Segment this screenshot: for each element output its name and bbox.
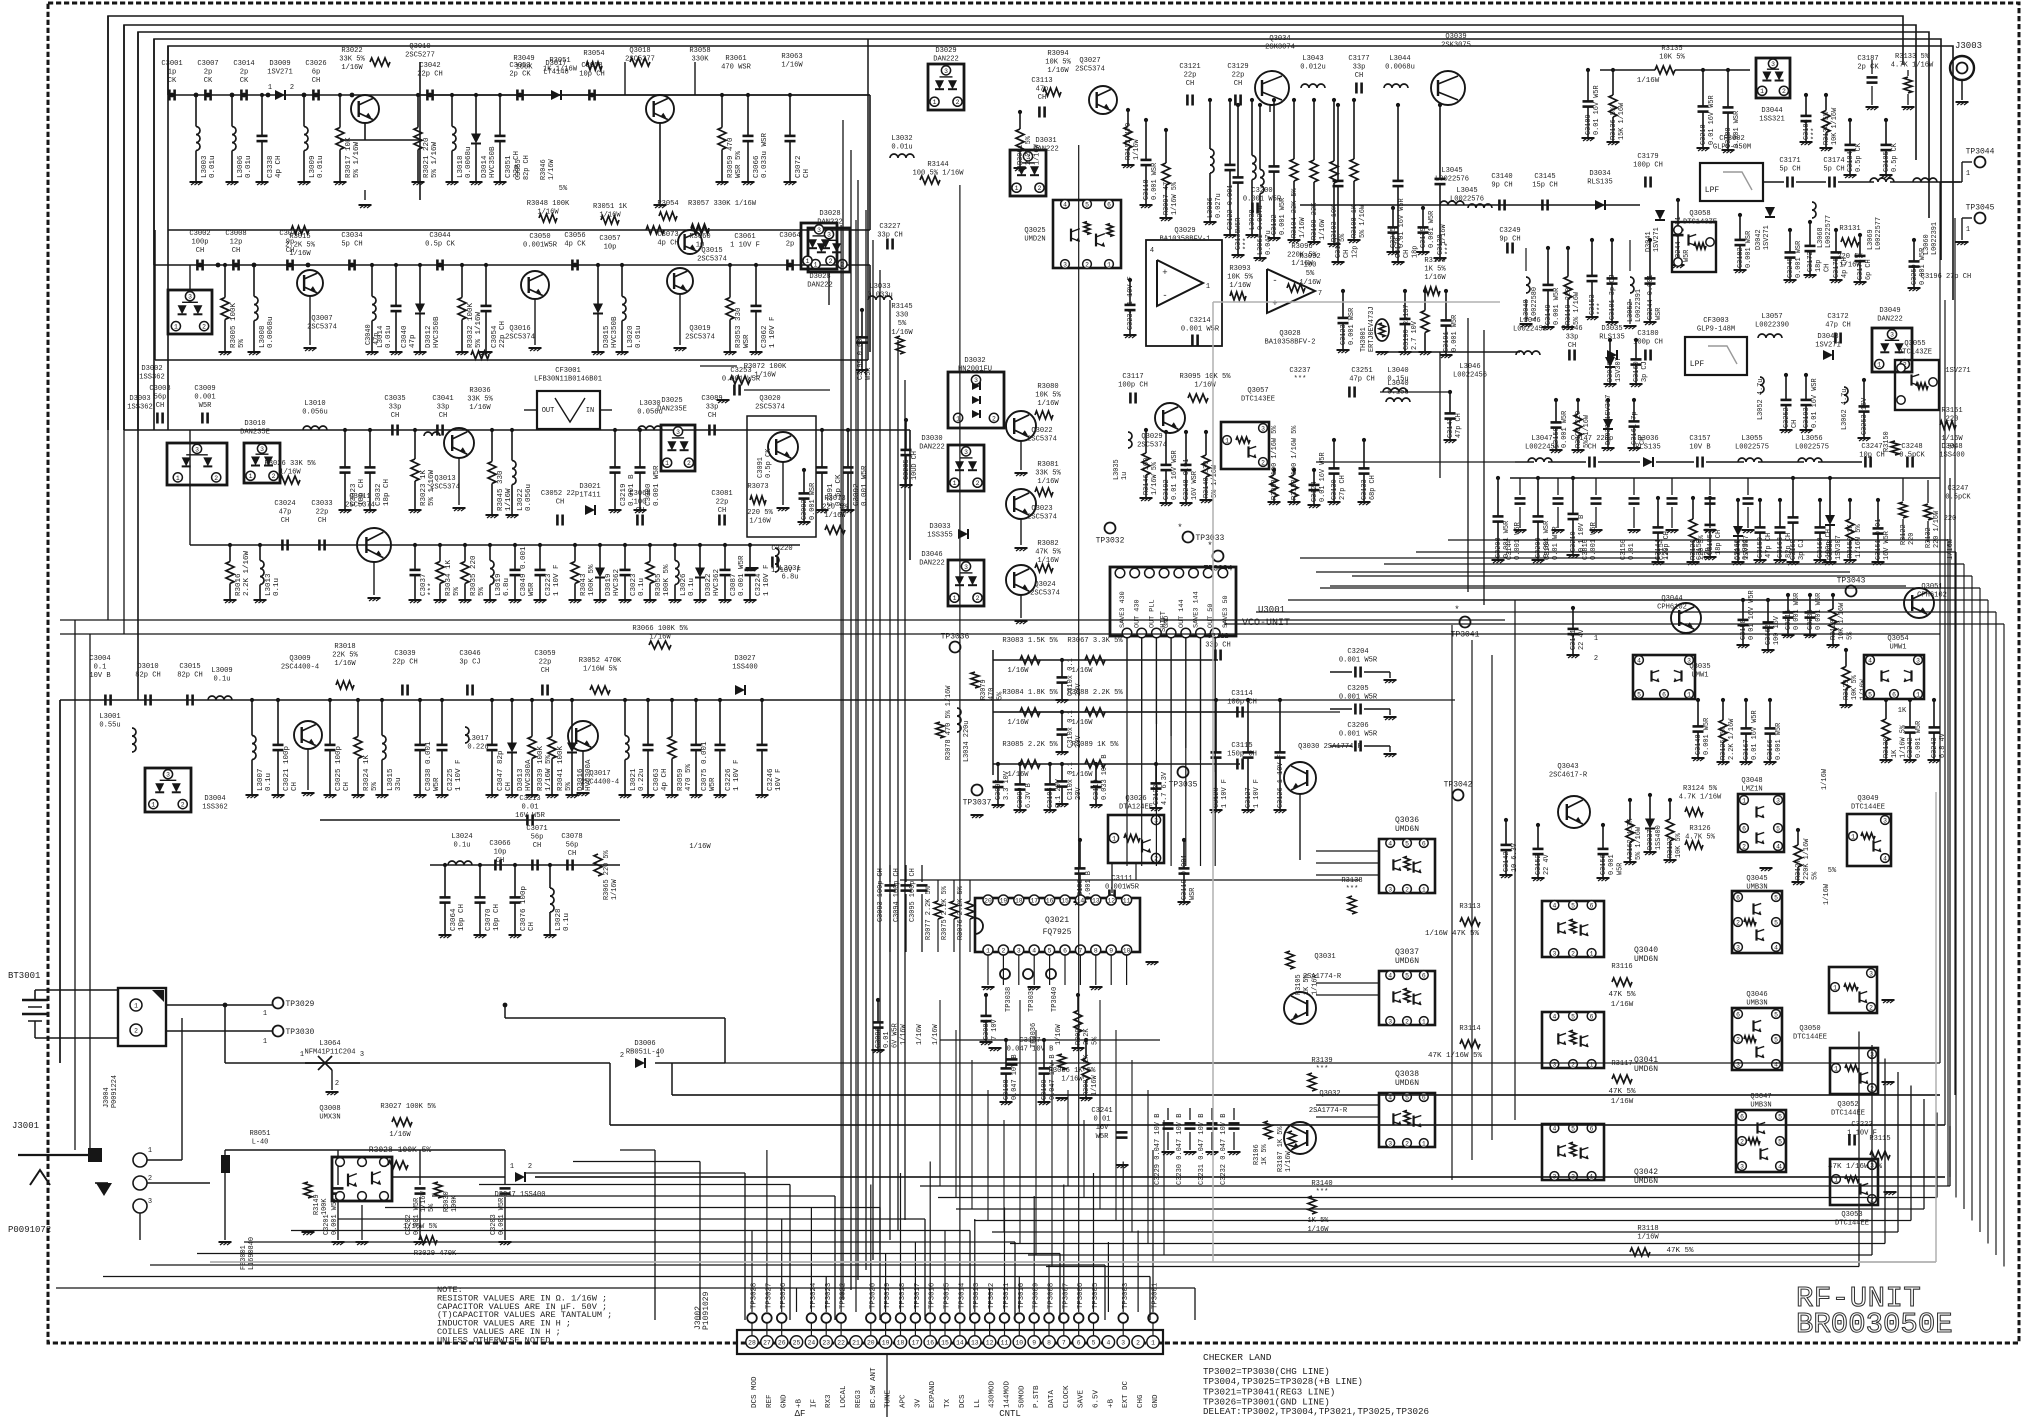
svg-text:C3193: C3193: [1803, 407, 1811, 428]
svg-text:W5R: W5R: [433, 777, 441, 791]
svg-text:Q3017: Q3017: [589, 770, 610, 778]
svg-text:3: 3: [1388, 1018, 1392, 1025]
svg-text:0.001 WSR: 0.001 WSR: [1348, 308, 1356, 345]
svg-text:0.22u: 0.22u: [467, 744, 488, 752]
svg-text:21: 21: [852, 1339, 860, 1346]
svg-text:BA10358BFV-1: BA10358BFV-1: [1159, 236, 1210, 244]
svg-text:R3104 22K 5%: R3104 22K 5%: [1291, 188, 1299, 238]
svg-text:CPH6102: CPH6102: [1657, 604, 1687, 612]
svg-text:C3251: C3251: [1351, 367, 1372, 375]
svg-text:1 10V F: 1 10V F: [733, 759, 741, 791]
svg-text:R3100: R3100: [1424, 257, 1445, 265]
svg-text:1: 1: [1225, 437, 1229, 444]
svg-text:2: 2: [687, 460, 691, 467]
svg-text:1K: 1K: [1898, 707, 1907, 715]
svg-text:4: 4: [1106, 1339, 1110, 1346]
svg-text:C3107: C3107: [1019, 1037, 1040, 1045]
svg-text:L3040: L3040: [1387, 380, 1408, 388]
svg-text:C3073: C3073: [657, 231, 678, 239]
svg-text:3p CJ: 3p CJ: [459, 659, 480, 667]
svg-text:10K 5%: 10K 5%: [1659, 54, 1685, 62]
svg-text:C3092: C3092: [853, 483, 861, 506]
svg-text:C3246: C3246: [767, 768, 775, 791]
svg-text:UMD6N: UMD6N: [1395, 1079, 1419, 1088]
svg-text:2.7 10V: 2.7 10V: [1411, 320, 1419, 350]
svg-text:1: 1: [151, 802, 155, 809]
svg-text:L3046: L3046: [1459, 363, 1480, 371]
svg-text:C3133: C3133: [1361, 479, 1369, 500]
svg-text:8: 8: [1047, 1339, 1051, 1346]
svg-text:0.001 W5R: 0.001 W5R: [1561, 411, 1569, 448]
svg-text:DCS MOD: DCS MOD: [751, 1376, 759, 1408]
svg-text:100K: 100K: [515, 64, 533, 72]
svg-text:REF: REF: [766, 1394, 774, 1408]
svg-text:C3041: C3041: [432, 395, 453, 403]
svg-text:C3157: C3157: [1689, 435, 1710, 443]
svg-text:1/16W: 1/16W: [1007, 667, 1029, 675]
svg-text:3: 3: [1388, 1140, 1392, 1147]
svg-text:D3025: D3025: [661, 397, 682, 405]
svg-text:1: 1: [268, 84, 272, 92]
svg-text:R3052 470K: R3052 470K: [579, 657, 622, 665]
svg-text:C3123: C3123: [1340, 324, 1348, 345]
svg-text:1/16W: 1/16W: [1033, 143, 1041, 165]
svg-text:22p: 22p: [716, 499, 729, 507]
svg-text:19: 19: [882, 1339, 890, 1346]
svg-text:2: 2: [1594, 655, 1598, 663]
svg-text:82p CH: 82p CH: [523, 155, 531, 180]
svg-text:C3055: C3055: [515, 159, 523, 180]
svg-text:D3027: D3027: [734, 655, 755, 663]
svg-text:R3085 2.2K 5%: R3085 2.2K 5%: [1002, 741, 1058, 749]
svg-text:R3113: R3113: [1459, 903, 1480, 911]
svg-text:R3096: R3096: [1291, 243, 1312, 251]
svg-text:330K: 330K: [691, 56, 709, 64]
svg-text:2SC4617-R: 2SC4617-R: [1549, 772, 1588, 780]
svg-text:1: 1: [1594, 635, 1598, 643]
svg-text:UMD2N: UMD2N: [1024, 236, 1045, 244]
svg-text:2.2K: 2.2K: [1083, 1028, 1091, 1045]
svg-text:82p CH: 82p CH: [135, 672, 161, 680]
svg-text:R3063: R3063: [781, 53, 802, 61]
svg-text:6.8u: 6.8u: [503, 578, 511, 596]
svg-text:R3005 100K: R3005 100K: [230, 302, 238, 348]
svg-text:C3002: C3002: [189, 230, 210, 238]
svg-text:CH: CH: [318, 517, 327, 525]
svg-text:0.001 W5R: 0.001 W5R: [1590, 521, 1598, 560]
svg-text:0.001 WSR: 0.001 WSR: [809, 483, 817, 520]
svg-text:C3051: C3051: [505, 155, 513, 178]
svg-text:0.001 B: 0.001 B: [1085, 871, 1093, 900]
svg-text:22 4V: 22 4V: [1578, 628, 1586, 650]
svg-text:2: 2: [272, 473, 276, 480]
svg-text:33p: 33p: [389, 404, 402, 412]
svg-text:Q3009: Q3009: [289, 655, 310, 663]
svg-text:47p CH: 47p CH: [1825, 322, 1851, 330]
svg-text:Q3010: Q3010: [409, 43, 430, 51]
svg-text:1: 1: [1015, 185, 1019, 192]
svg-text:0.01: 0.01: [521, 804, 538, 812]
svg-text:C3175: C3175: [1833, 257, 1841, 278]
svg-text:R3093: R3093: [1229, 265, 1250, 273]
svg-text:L3001: L3001: [99, 713, 120, 721]
svg-text:C3206: C3206: [1347, 722, 1368, 730]
svg-text:2: 2: [528, 1163, 532, 1171]
svg-text:6: 6: [1260, 257, 1264, 265]
svg-text:1SV271: 1SV271: [267, 69, 293, 77]
svg-text:D3037: D3037: [1647, 829, 1655, 850]
svg-text:33p: 33p: [1353, 64, 1366, 72]
svg-text:1/16W 5%: 1/16W 5%: [1171, 181, 1179, 215]
svg-text:D3003: D3003: [129, 395, 150, 403]
svg-text:9p CH: 9p CH: [1499, 236, 1520, 244]
svg-text:R3054: R3054: [657, 200, 678, 208]
svg-text:C3081: C3081: [711, 490, 732, 498]
svg-text:L3022: L3022: [517, 488, 525, 511]
svg-text:TP3038: TP3038: [1005, 987, 1013, 1012]
svg-text:HVC362: HVC362: [713, 569, 721, 596]
svg-text:C3033: C3033: [311, 500, 332, 508]
svg-text:0.047 10V B: 0.047 10V B: [1049, 1055, 1057, 1101]
svg-text:R3067 3.3K 5%: R3067 3.3K 5%: [1067, 637, 1123, 645]
svg-text:L0022575: L0022575: [1795, 444, 1829, 452]
svg-text:C3128: C3128: [1213, 787, 1221, 808]
svg-text:L3015: L3015: [387, 768, 395, 791]
svg-text:100K 5%: 100K 5%: [663, 564, 671, 596]
svg-text:C3166: C3166: [1767, 739, 1775, 760]
svg-text:R3139: R3139: [1311, 1057, 1332, 1065]
svg-text:UMB3N: UMB3N: [1746, 1000, 1767, 1008]
svg-text:5%: 5%: [238, 338, 246, 348]
svg-text:L3056: L3056: [1801, 435, 1822, 443]
svg-text:ΔF: ΔF: [795, 1409, 806, 1417]
svg-text:2: 2: [620, 1052, 624, 1060]
svg-text:EXPAND: EXPAND: [929, 1380, 937, 1408]
svg-text:5% 1/16W: 5% 1/16W: [431, 141, 439, 178]
svg-text:47p: 47p: [1036, 86, 1049, 94]
svg-text:Q3055: Q3055: [1904, 340, 1925, 348]
svg-text:C3242: C3242: [1907, 737, 1915, 758]
svg-text:2: 2: [181, 802, 185, 809]
svg-text:2: 2: [956, 99, 960, 106]
svg-text:C3054: C3054: [491, 325, 499, 348]
svg-text:3: 3: [195, 446, 199, 453]
svg-text:C3161 7p: C3161 7p: [1631, 411, 1639, 445]
svg-text:33p CH: 33p CH: [1205, 642, 1231, 650]
svg-text:P0091224: P0091224: [111, 1075, 119, 1108]
svg-text:3: 3: [1388, 886, 1392, 893]
svg-text:C3042: C3042: [419, 62, 440, 70]
svg-text:SAVE3 50: SAVE3 50: [1222, 595, 1230, 628]
svg-text:OUT 144: OUT 144: [1178, 599, 1186, 628]
svg-text:C3127: C3127: [1245, 787, 1253, 808]
svg-text:10K 5%: 10K 5%: [1851, 674, 1859, 700]
svg-text:0.1u: 0.1u: [265, 773, 273, 791]
svg-text:4: 4: [1032, 947, 1036, 954]
svg-text:L3010: L3010: [304, 400, 325, 408]
svg-text:CH: CH: [533, 842, 542, 850]
svg-text:1/16W: 1/16W: [279, 469, 301, 477]
svg-text:L3008: L3008: [259, 325, 267, 348]
svg-text:L3026: L3026: [680, 573, 688, 596]
svg-text:C3205: C3205: [1347, 685, 1368, 693]
svg-text:2: 2: [1869, 1004, 1873, 1011]
svg-text:1: 1: [510, 1163, 514, 1171]
svg-text:2SC5374: 2SC5374: [1027, 514, 1057, 522]
svg-text:5: 5: [1085, 201, 1089, 208]
svg-text:22p CH: 22p CH: [417, 71, 443, 79]
svg-text:0.01 16V WSR: 0.01 16V WSR: [1811, 378, 1819, 428]
svg-text:C3144: C3144: [1655, 539, 1663, 560]
svg-text:18p: 18p: [1815, 260, 1823, 272]
svg-text:1: 1: [249, 473, 253, 480]
svg-text:6p CH: 6p CH: [1865, 259, 1873, 280]
svg-text:GLP9-450M: GLP9-450M: [1713, 144, 1751, 152]
svg-text:3: 3: [817, 227, 821, 234]
svg-text:W5R: W5R: [1235, 218, 1243, 230]
svg-text:10V B: 10V B: [89, 672, 110, 680]
svg-text:2SA1774-R: 2SA1774-R: [1309, 1107, 1348, 1115]
svg-text:Q3040: Q3040: [1634, 946, 1658, 955]
svg-text:-: -: [1272, 276, 1277, 286]
svg-text:R3138: R3138: [1341, 877, 1362, 885]
svg-text:CH: CH: [1186, 80, 1195, 88]
svg-text:0.056u: 0.056u: [302, 409, 328, 417]
svg-text:L3003: L3003: [201, 155, 209, 178]
svg-text:R3021 220: R3021 220: [423, 137, 431, 178]
svg-text:*: *: [1207, 541, 1212, 551]
svg-text:27p CH: 27p CH: [1339, 475, 1347, 500]
svg-text:C3066: C3066: [489, 840, 510, 848]
svg-text:C3143: C3143: [1447, 417, 1455, 438]
svg-text:D3009: D3009: [269, 60, 290, 68]
svg-text:FQ7925: FQ7925: [1043, 928, 1072, 937]
svg-text:J3001: J3001: [12, 1121, 39, 1131]
svg-text:2p: 2p: [786, 241, 795, 249]
svg-text:6.5V: 6.5V: [1093, 1389, 1101, 1408]
svg-text:2p: 2p: [240, 69, 249, 77]
svg-text:3: 3: [1890, 332, 1894, 339]
svg-text:C3215: C3215: [1390, 227, 1398, 248]
svg-text:LPF: LPF: [1705, 186, 1720, 195]
svg-text:Q3052: Q3052: [1837, 1101, 1858, 1109]
svg-text:L3052: L3052: [1627, 301, 1635, 322]
svg-text:1/16W: 1/16W: [469, 404, 491, 412]
svg-text:R3108 1K: R3108 1K: [1351, 204, 1359, 238]
svg-text:***: ***: [1811, 128, 1819, 140]
svg-text:10: 10: [1123, 947, 1131, 954]
svg-text:DAN222: DAN222: [807, 282, 833, 290]
svg-text:0.1 10V B: 0.1 10V B: [1578, 515, 1586, 552]
svg-text:3: 3: [1776, 797, 1780, 804]
svg-text:220 5%: 220 5%: [747, 509, 773, 517]
svg-text:0.001 W5R: 0.001 W5R: [1553, 288, 1561, 325]
svg-text:R3149: R3149: [313, 1194, 321, 1215]
svg-text:2: 2: [829, 258, 833, 265]
svg-text:2: 2: [976, 480, 980, 487]
svg-text:4p CH: 4p CH: [275, 155, 283, 178]
svg-text:HVC350B: HVC350B: [433, 316, 441, 348]
svg-text:1K 5%: 1K 5%: [1261, 1143, 1269, 1165]
svg-text:33K 5%: 33K 5%: [339, 56, 365, 64]
svg-text:1: 1: [1966, 226, 1970, 234]
svg-text:2: 2: [1038, 185, 1042, 192]
svg-text:R3061: R3061: [725, 55, 746, 63]
svg-text:5% 1/16W: 5% 1/16W: [1573, 291, 1581, 325]
svg-text:Q3029: Q3029: [1174, 227, 1195, 235]
svg-text:1/16W: 1/16W: [420, 1190, 428, 1212]
svg-text:2: 2: [1405, 886, 1409, 893]
svg-text:SAVE: SAVE: [1078, 1389, 1086, 1408]
svg-text:22K 5%: 22K 5%: [332, 652, 358, 660]
svg-text:33p: 33p: [1566, 334, 1579, 342]
svg-text:C3200: C3200: [1251, 187, 1272, 195]
svg-text:C3014: C3014: [233, 60, 254, 68]
svg-text:L0022391: L0022391: [1635, 289, 1643, 322]
svg-text:1p: 1p: [168, 69, 177, 77]
svg-text:3: 3: [1736, 944, 1740, 951]
svg-text:4: 4: [1774, 944, 1778, 951]
svg-text:***: ***: [1346, 886, 1359, 894]
svg-text:D3030: D3030: [921, 435, 942, 443]
svg-text:R3054: R3054: [583, 50, 604, 58]
svg-text:4: 4: [1637, 657, 1641, 664]
svg-text:C3152: C3152: [1535, 854, 1543, 875]
svg-text:1SS400: 1SS400: [1939, 452, 1965, 460]
svg-text:L3009: L3009: [309, 155, 317, 178]
svg-text:UMD6N: UMD6N: [1395, 957, 1419, 966]
svg-text:1/16W: 1/16W: [932, 1023, 940, 1045]
svg-text:Q3024: Q3024: [1034, 581, 1055, 589]
svg-text:5%: 5%: [1306, 270, 1315, 278]
svg-text:R3080: R3080: [1037, 383, 1058, 391]
svg-text:4: 4: [1388, 972, 1392, 979]
svg-text:CH: CH: [528, 922, 536, 931]
svg-text:0.033u WSR: 0.033u WSR: [761, 132, 769, 178]
svg-text:100p CH: 100p CH: [1118, 382, 1148, 390]
svg-text:UMB3N: UMB3N: [1750, 1102, 1771, 1110]
svg-text:WSR: WSR: [1189, 888, 1197, 900]
svg-text:2: 2: [1085, 261, 1089, 268]
svg-text:CH: CH: [1823, 264, 1831, 272]
svg-text:R3053 330: R3053 330: [735, 307, 743, 348]
svg-text:C3119 0.001: C3119 0.001: [1181, 855, 1189, 901]
svg-text:5: 5: [1774, 1011, 1778, 1018]
svg-text:TP3039: TP3039: [1028, 987, 1036, 1012]
svg-text:HN2001FU: HN2001FU: [958, 366, 992, 374]
svg-text:CH: CH: [568, 850, 577, 858]
svg-text:D3021: D3021: [579, 483, 600, 491]
svg-text:C3226: C3226: [725, 768, 733, 791]
svg-text:CH: CH: [156, 402, 165, 410]
svg-text:DCS: DCS: [959, 1394, 967, 1408]
svg-text:R3051 1K: R3051 1K: [593, 203, 628, 211]
svg-text:R3145: R3145: [891, 303, 912, 311]
svg-text:1/16W: 1/16W: [1637, 77, 1660, 85]
svg-text:20: 20: [984, 897, 992, 904]
svg-text:0.01 16V WSR: 0.01 16V WSR: [1171, 450, 1179, 500]
svg-text:D3043: D3043: [1817, 333, 1838, 341]
svg-text:Q3045: Q3045: [1746, 875, 1767, 883]
svg-text:5%: 5%: [371, 781, 379, 791]
svg-text:CPH6102: CPH6102: [1917, 592, 1947, 600]
svg-text:TP3043: TP3043: [1837, 577, 1866, 586]
svg-text:Q3019: Q3019: [689, 325, 710, 333]
svg-text:UMX3N: UMX3N: [319, 1114, 340, 1122]
svg-text:L3017: L3017: [467, 735, 488, 743]
svg-text:6.3V B: 6.3V B: [1025, 783, 1033, 808]
svg-text:TP3029: TP3029: [286, 1000, 315, 1009]
svg-text:2: 2: [976, 595, 980, 602]
svg-text:C3149: C3149: [1545, 304, 1553, 325]
svg-text:1: 1: [1834, 1065, 1838, 1072]
svg-text:5% 1/16W: 5% 1/16W: [1635, 826, 1643, 860]
svg-text:L3055: L3055: [1741, 435, 1762, 443]
svg-text:3p CJ: 3p CJ: [1798, 539, 1806, 560]
svg-text:5: 5: [1778, 1138, 1782, 1145]
svg-text:0.001 W5R: 0.001 W5R: [1775, 723, 1783, 760]
svg-text:6: 6: [1107, 201, 1111, 208]
svg-text:1/16W: 1/16W: [611, 878, 619, 900]
svg-text:C3140: C3140: [1491, 173, 1512, 181]
svg-text:10K 5%: 10K 5%: [1227, 274, 1253, 282]
svg-text:12: 12: [986, 1339, 994, 1346]
svg-text:10K 5%: 10K 5%: [1045, 59, 1071, 67]
svg-text:2p CK: 2p CK: [1857, 64, 1879, 72]
svg-text:1/16W 5%: 1/16W 5%: [1855, 524, 1863, 558]
svg-text:2.2K 5%: 2.2K 5%: [285, 242, 316, 250]
svg-text:2: 2: [214, 475, 218, 482]
svg-text:1: 1: [263, 1010, 267, 1018]
svg-text:1SS400: 1SS400: [732, 664, 758, 672]
svg-text:D3028: D3028: [809, 273, 830, 281]
svg-text:C3062: C3062: [761, 325, 769, 348]
svg-text:R3083 1.5K 5%: R3083 1.5K 5%: [1002, 637, 1058, 645]
svg-text:+: +: [1272, 299, 1277, 309]
svg-text:22 4V: 22 4V: [1543, 853, 1551, 875]
svg-text:R3078 470 5% 1/16W: R3078 470 5% 1/16W: [945, 685, 953, 760]
svg-text:4: 4: [1552, 1013, 1556, 1020]
svg-text:CLOCK: CLOCK: [1063, 1385, 1071, 1408]
svg-text:6: 6: [1736, 1011, 1740, 1018]
svg-text:1/16W: 1/16W: [891, 329, 913, 337]
svg-text:C3068: C3068: [629, 490, 650, 498]
svg-text:C3191: C3191: [1443, 331, 1451, 352]
svg-text:3: 3: [1916, 657, 1920, 664]
svg-text:1SV307: 1SV307: [1743, 535, 1751, 560]
svg-text:C3253 16V: C3253 16V: [1861, 397, 1869, 435]
svg-text:2SC4400-4: 2SC4400-4: [281, 664, 319, 672]
svg-text:C3032: C3032: [375, 483, 383, 506]
svg-text:R3082: R3082: [1037, 540, 1058, 548]
svg-text:L3007: L3007: [257, 768, 265, 791]
svg-text:L3019: L3019: [495, 573, 503, 596]
svg-text:R3133 5%: R3133 5%: [1895, 53, 1930, 61]
svg-text:R3135: R3135: [1661, 45, 1682, 53]
svg-text:0.001: 0.001: [194, 394, 215, 402]
svg-text:33u: 33u: [395, 777, 403, 791]
svg-text:L3043: L3043: [1302, 55, 1323, 63]
svg-text:C310x 0.1: C310x 0.1: [1067, 762, 1075, 800]
svg-text:100p CH: 100p CH: [1825, 529, 1833, 558]
svg-text:13: 13: [971, 1339, 979, 1346]
svg-text:R3059: R3059: [677, 768, 685, 791]
svg-text:1/16W: 1/16W: [689, 843, 711, 851]
svg-text:R3075 2.2K 5%: R3075 2.2K 5%: [941, 885, 949, 940]
svg-text:7: 7: [1318, 290, 1322, 298]
svg-text:C3064: C3064: [450, 908, 458, 931]
svg-text:5: 5: [1048, 947, 1052, 954]
